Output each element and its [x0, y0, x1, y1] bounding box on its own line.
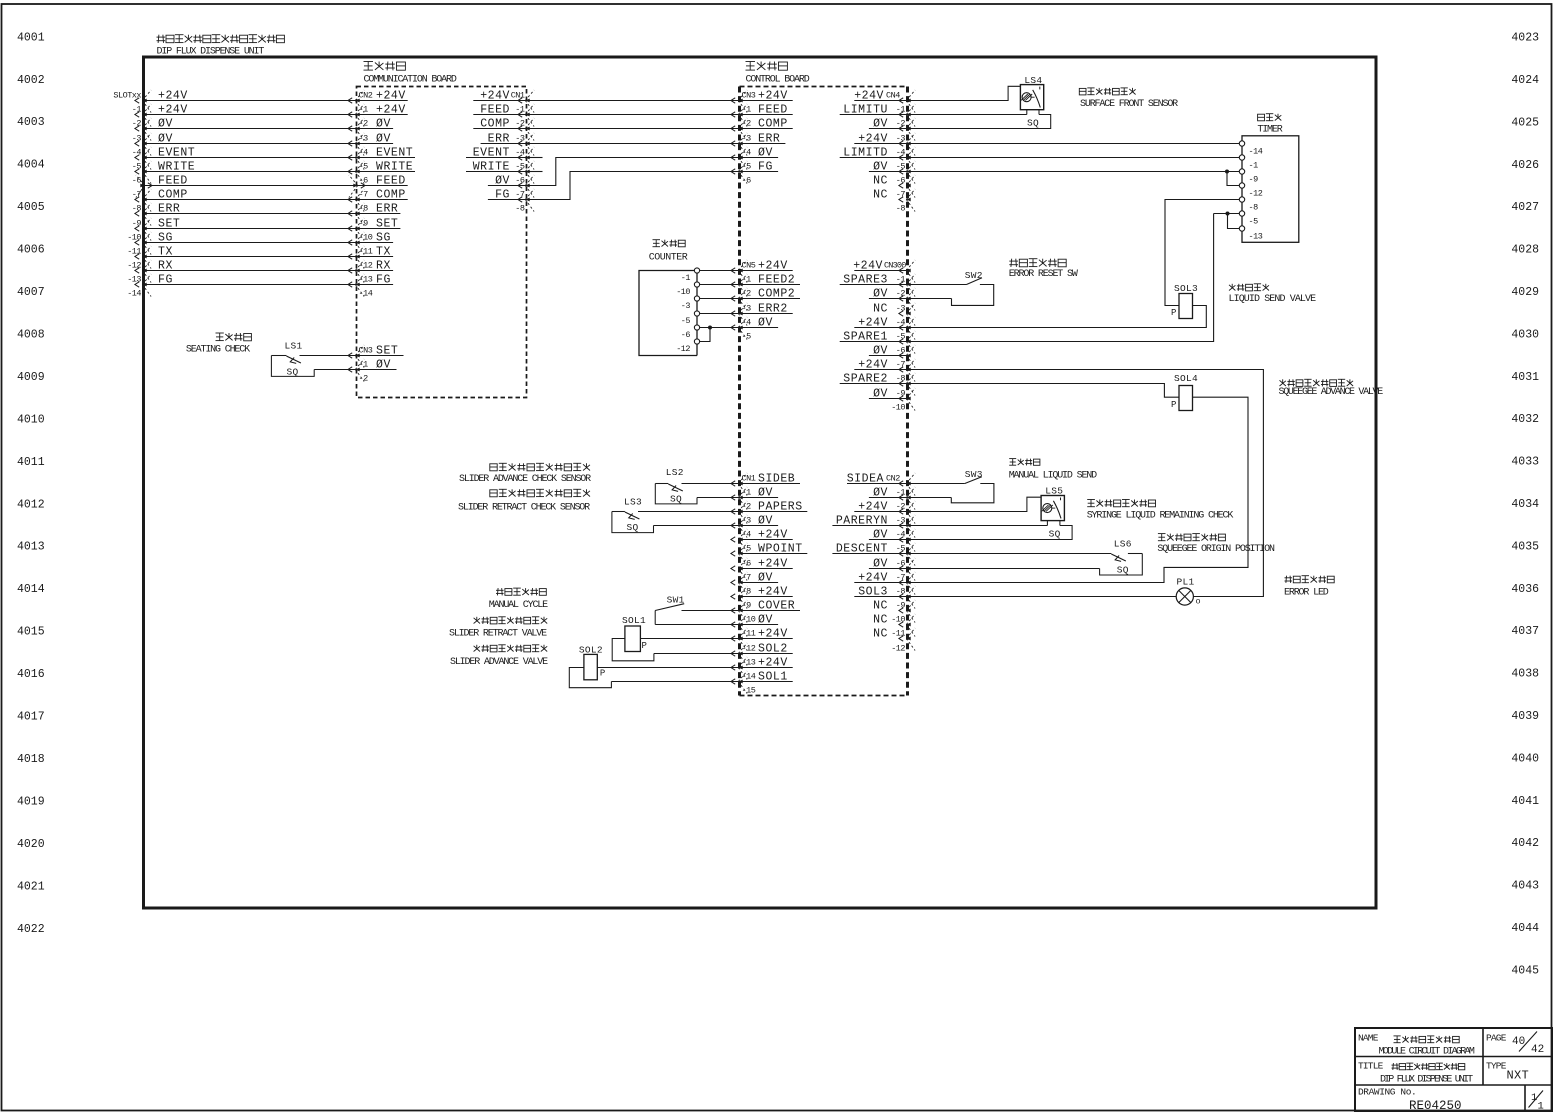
wire CN4-5 LIMITD to timer pin 1: [908, 157, 1240, 159]
svg-text:-6: -6: [681, 330, 691, 340]
grid numbers left 4001-4022: [17, 31, 45, 936]
svg-text:4037: 4037: [1511, 625, 1539, 638]
svg-text:4007: 4007: [17, 286, 45, 299]
svg-text:CONTROL BOARD: CONTROL BOARD: [746, 75, 810, 86]
lamp PL1 (error LED): [908, 577, 1201, 607]
svg-text:-10: -10: [676, 287, 690, 297]
counter pin -5: [681, 311, 700, 326]
label liquid send valve japanese: [1229, 284, 1269, 291]
svg-text:CN4: CN4: [886, 90, 900, 100]
svg-text:-5: -5: [896, 544, 906, 554]
svg-text:-3: -3: [896, 134, 906, 144]
label manual liquid send english: [1009, 471, 1097, 482]
control board CN1-1 pin SIDEB: [731, 472, 800, 495]
svg-text:4021: 4021: [17, 880, 45, 893]
svg-text:-6: -6: [896, 559, 906, 569]
label communication board japanese: [364, 62, 406, 71]
svg-text:SQUEEGEE ADVANCE VALVE: SQUEEGEE ADVANCE VALVE: [1279, 387, 1384, 398]
svg-text:-9: -9: [359, 219, 369, 229]
svg-text:4036: 4036: [1511, 583, 1539, 596]
svg-text:P: P: [642, 641, 647, 651]
svg-text:-3: -3: [742, 134, 752, 144]
control board CN2-7 pin 0V: [869, 557, 915, 580]
svg-text:-3: -3: [132, 134, 142, 144]
svg-text:SG: SG: [158, 231, 173, 244]
wire CN1-4 to CN3-4: [527, 143, 740, 145]
label slider advance valve english: [450, 657, 548, 668]
label slider retract check sensor english: [458, 503, 590, 514]
control board CN5-4 pin ERR2: [731, 302, 793, 325]
svg-text:4005: 4005: [17, 201, 45, 214]
svg-text:LS1: LS1: [285, 341, 303, 352]
svg-text:-4: -4: [515, 148, 525, 158]
timer pin -13: [1239, 226, 1262, 242]
svg-text:-5: -5: [681, 316, 691, 326]
wire counter to CN5 row 1: [700, 284, 740, 286]
svg-text:-1: -1: [896, 488, 906, 498]
svg-text:DIP FLUX DISPENSE UNIT: DIP FLUX DISPENSE UNIT: [157, 47, 265, 58]
control board CN1-2 pin 0V: [731, 486, 778, 509]
switch SW2 (error reset): [908, 270, 994, 305]
svg-text:4009: 4009: [17, 371, 45, 384]
control board CN1-10 pin COVER: [731, 599, 800, 622]
svg-text:NAME: NAME: [1358, 1033, 1379, 1044]
control board CN2-6 pin DESCENT: [832, 542, 915, 565]
svg-text:4019: 4019: [17, 795, 45, 808]
svg-text:FG: FG: [158, 273, 173, 286]
svg-text:-5: -5: [515, 162, 525, 172]
svg-text:CN300: CN300: [884, 260, 906, 270]
svg-text:-1: -1: [742, 275, 752, 285]
svg-text:-1: -1: [1249, 160, 1259, 170]
wire timer pin 8 to SOL3: [1165, 200, 1239, 306]
svg-text:ERROR RESET SW: ERROR RESET SW: [1009, 269, 1078, 280]
svg-text:-3: -3: [681, 301, 691, 311]
control board CN3-3 pin COMP: [731, 117, 793, 140]
svg-text:4023: 4023: [1511, 32, 1539, 45]
control board CN1-13 pin SOL2: [731, 642, 793, 665]
svg-text:-9: -9: [896, 389, 906, 399]
svg-text:-12: -12: [891, 644, 905, 654]
label slider advance check sensor english: [459, 474, 591, 485]
counter pin -1: [681, 268, 700, 283]
label slider advance valve japanese: [474, 645, 548, 652]
label syringe liquid remaining check english: [1087, 511, 1234, 522]
control board CN300-2 pin SPARE3: [840, 273, 915, 296]
svg-text:LS6: LS6: [1114, 539, 1132, 550]
svg-text:-13: -13: [359, 275, 373, 285]
control board CN2-2 pin 0V: [869, 486, 915, 509]
svg-text:-13: -13: [127, 275, 141, 285]
svg-text:-6: -6: [896, 176, 906, 186]
control board CN1-5 pin +24V: [731, 528, 793, 551]
svg-text:CN2: CN2: [359, 91, 373, 101]
title block name japanese (module circuit diagram): [1394, 1036, 1460, 1043]
svg-text:4039: 4039: [1511, 710, 1539, 723]
svg-text:P: P: [600, 669, 605, 679]
svg-text:SEATING CHECK: SEATING CHECK: [186, 345, 250, 356]
control board CN5-2 pin FEED2: [731, 273, 800, 296]
label squeegee origin position japanese: [1158, 534, 1226, 541]
svg-text:SURFACE FRONT SENSOR: SURFACE FRONT SENSOR: [1080, 99, 1178, 110]
label liquid send valve english: [1229, 294, 1317, 305]
sensor LS4 (surface front sensor): [908, 75, 1051, 129]
svg-text:4028: 4028: [1511, 244, 1539, 257]
svg-text:4032: 4032: [1511, 413, 1539, 426]
svg-text:-9: -9: [896, 601, 906, 611]
svg-text:SLIDER ADVANCE CHECK SENSOR: SLIDER ADVANCE CHECK SENSOR: [459, 474, 591, 485]
svg-text:NC: NC: [873, 627, 888, 640]
svg-text:-2: -2: [515, 119, 525, 129]
wire SLOT-2 to CN2-3 0V: [132, 117, 393, 140]
wire SLOT-9 to CN2-10 SET: [132, 217, 401, 240]
svg-text:-6: -6: [132, 176, 142, 186]
svg-text:-4: -4: [896, 148, 906, 158]
control board CN4-7 pin NC: [873, 174, 915, 197]
svg-text:4010: 4010: [17, 413, 45, 426]
svg-text:-1: -1: [515, 105, 525, 115]
wire CN300-8 +24V to PL1: [908, 370, 1264, 597]
wire counter 0V junction: [700, 326, 740, 342]
svg-text:WRITE: WRITE: [158, 160, 195, 173]
svg-text:-4: -4: [359, 148, 369, 158]
control board CN1-7 pin +24V: [731, 557, 793, 580]
control board CN2-4 pin PARERYN: [832, 514, 915, 537]
svg-text:LS3: LS3: [624, 497, 642, 508]
control board CN1-12 pin +24V: [731, 627, 793, 650]
control board CN4-6 pin 0V: [869, 160, 915, 183]
svg-text:-6: -6: [742, 176, 752, 186]
label syringe liquid remaining check japanese: [1087, 500, 1155, 507]
timer box: [1242, 136, 1299, 243]
svg-text:-7: -7: [896, 190, 906, 200]
svg-text:-7: -7: [515, 190, 525, 200]
label slider retract check sensor japanese: [490, 489, 590, 497]
svg-text:+24V: +24V: [158, 89, 188, 102]
comm board CN3-1 pin SET: [348, 344, 404, 367]
label squeegee advance valve japanese: [1280, 379, 1354, 386]
svg-text:-7: -7: [742, 573, 752, 583]
wire timer pins 5 and 13 to CN300-6 SPARE1: [908, 212, 1240, 342]
svg-text:4033: 4033: [1511, 456, 1539, 469]
svg-text:-1: -1: [896, 275, 906, 285]
svg-text:-9: -9: [742, 601, 752, 611]
svg-text:-5: -5: [742, 544, 752, 554]
wire CN4-4 +24V to timer pin 14: [908, 143, 1240, 145]
control board CN2-11 pin NC: [873, 613, 915, 636]
control board CN2-3 pin +24V: [854, 500, 915, 523]
title block frame: [1355, 1028, 1552, 1111]
control board CN2-9 pin SOL3: [854, 585, 915, 608]
svg-text:4003: 4003: [17, 116, 45, 129]
label communication board english: [364, 75, 457, 86]
svg-text:-9: -9: [1249, 174, 1259, 184]
pin number comm CN3-2: [359, 374, 369, 384]
title block page 40/42: [1486, 1032, 1544, 1057]
pin number CN4-8: [896, 204, 906, 214]
control board CN5-5 pin 0V: [731, 316, 778, 339]
svg-text:SLOTxx: SLOTxx: [113, 91, 141, 101]
svg-text:MODULE CIRCUIT DIAGRAM: MODULE CIRCUIT DIAGRAM: [1379, 1047, 1475, 1058]
solenoid valve SOL1 (slider retract valve): [612, 615, 739, 661]
label manual cycle english: [489, 600, 548, 611]
counter pin -6: [681, 325, 700, 340]
label error reset sw english: [1009, 269, 1078, 280]
comm board CN1-5 pin EVENT: [466, 146, 534, 169]
wire SLOT-13 to CN2-14 FG: [127, 273, 393, 296]
svg-text:4004: 4004: [17, 159, 45, 172]
svg-text:-15: -15: [742, 686, 756, 696]
svg-text:PL1: PL1: [1177, 577, 1195, 588]
label manual liquid send japanese: [1009, 459, 1040, 466]
svg-text:42: 42: [1531, 1044, 1544, 1056]
svg-text:4002: 4002: [17, 74, 45, 87]
limit switch LS3 (slider retract check): [612, 497, 740, 534]
solenoid valve SOL2 (slider advance valve): [569, 645, 739, 688]
control board CN300-7 pin 0V: [869, 344, 915, 367]
wire SLOT-11 to CN2-12 TX: [127, 245, 393, 268]
label slider retract valve english: [449, 629, 547, 640]
control board CN2-8 pin +24V: [854, 571, 915, 594]
svg-text:P: P: [1171, 308, 1176, 318]
svg-text:4017: 4017: [17, 711, 45, 724]
svg-text:-1: -1: [896, 105, 906, 115]
title block drawing number RE04250: [1409, 1099, 1462, 1113]
svg-text:COMP: COMP: [158, 188, 188, 201]
comm board CN1-8 pin FG: [488, 188, 534, 211]
timer pin -5: [1239, 211, 1258, 227]
svg-text:ØV: ØV: [158, 117, 173, 130]
pin number CN2-14: [359, 289, 373, 299]
comm board CN1-6 pin WRITE: [466, 160, 534, 183]
svg-text:4014: 4014: [17, 583, 45, 596]
svg-text:-10: -10: [891, 403, 905, 413]
svg-text:FEED: FEED: [158, 174, 188, 187]
svg-text:-5: -5: [742, 162, 752, 172]
svg-text:NXT: NXT: [1507, 1069, 1530, 1083]
control board CN4-8 pin NC: [873, 188, 915, 211]
svg-text:4031: 4031: [1511, 371, 1539, 384]
svg-text:SQ: SQ: [1027, 118, 1039, 129]
label squeegee origin position english: [1157, 544, 1275, 555]
svg-text:SET: SET: [158, 217, 180, 230]
svg-text:-10: -10: [359, 233, 373, 243]
wire SLOT-5 to CN2-6 WRITE: [132, 160, 415, 183]
control board CN1-15 pin SOL1: [731, 670, 793, 693]
svg-text:-13: -13: [742, 658, 756, 668]
control board CN3-6 pin FG: [731, 160, 778, 183]
wire counter to CN5 row 0: [700, 270, 740, 272]
pin number CN1-8: [515, 204, 525, 214]
svg-text:-2: -2: [896, 119, 906, 129]
control board dashed outline: [740, 87, 908, 696]
svg-text:-2: -2: [359, 119, 369, 129]
svg-text:EVENT: EVENT: [158, 146, 195, 159]
svg-text:-12: -12: [1249, 188, 1263, 198]
svg-text:SOL1: SOL1: [622, 615, 646, 626]
svg-text:-2: -2: [132, 119, 142, 129]
title block TITLE label: [1358, 1061, 1384, 1072]
svg-text:DRAWING No.: DRAWING No.: [1358, 1087, 1416, 1098]
svg-text:-4: -4: [896, 318, 906, 328]
svg-text:-6: -6: [742, 559, 752, 569]
control board CN3-2 pin FEED: [731, 103, 793, 126]
label slider advance check sensor japanese: [490, 463, 590, 471]
svg-text:DIP FLUX DISPENSE UNIT: DIP FLUX DISPENSE UNIT: [1380, 1075, 1473, 1086]
svg-text:4006: 4006: [17, 244, 45, 257]
control board CN300-4 pin NC: [873, 302, 915, 325]
svg-text:4018: 4018: [17, 753, 45, 766]
svg-text:-3: -3: [896, 516, 906, 526]
svg-text:-8: -8: [359, 204, 369, 214]
control board CN2-5 pin 0V: [869, 528, 915, 551]
comm board CN1-7 pin 0V: [488, 174, 534, 197]
svg-text:CN5: CN5: [742, 261, 756, 271]
svg-text:-2: -2: [742, 289, 752, 299]
svg-text:-14: -14: [1249, 146, 1263, 156]
svg-text:-8: -8: [896, 374, 906, 384]
svg-text:-2: -2: [359, 374, 369, 384]
control board CN3-5 pin 0V: [731, 146, 778, 169]
svg-text:SQ: SQ: [627, 522, 639, 533]
svg-text:SYRINGE LIQUID REMAINING CHECK: SYRINGE LIQUID REMAINING CHECK: [1087, 511, 1234, 522]
comm board CN1-2 pin FEED: [473, 103, 534, 126]
pin number CN5-5: [742, 332, 752, 342]
svg-text:4042: 4042: [1511, 837, 1539, 850]
title block NAME label: [1358, 1033, 1379, 1044]
label control board english: [746, 75, 810, 86]
control board CN1-6 pin WPOINT: [731, 542, 807, 565]
svg-text:4043: 4043: [1511, 880, 1539, 893]
svg-text:1: 1: [1538, 1101, 1544, 1113]
control board CN1-3 pin PAPERS: [731, 500, 807, 523]
counter pin -12: [676, 339, 699, 354]
svg-text:4025: 4025: [1511, 116, 1539, 129]
sensor LS5 (syringe liquid remaining check): [908, 486, 1073, 540]
svg-text:4024: 4024: [1511, 74, 1539, 87]
control board CN4-3 pin 0V: [869, 117, 915, 140]
svg-text:4027: 4027: [1511, 201, 1539, 214]
svg-text:-4: -4: [742, 148, 752, 158]
label slider retract valve japanese: [474, 617, 548, 624]
pin number ctrl CN2-12: [891, 644, 905, 654]
svg-text:4034: 4034: [1511, 498, 1539, 511]
timer pin -9: [1239, 169, 1258, 185]
svg-text:LS2: LS2: [666, 467, 684, 478]
svg-text:NC: NC: [873, 188, 888, 201]
svg-text:-6: -6: [515, 176, 525, 186]
svg-text:-1: -1: [742, 488, 752, 498]
switch SW1 (manual cycle): [655, 595, 739, 625]
comm board CN1-3 pin COMP: [473, 117, 534, 140]
title block sheet 1/1: [1529, 1091, 1544, 1113]
control board CN4-4 pin +24V: [854, 132, 915, 155]
header title english: [157, 47, 265, 58]
svg-text:TX: TX: [158, 245, 173, 258]
svg-text:-1: -1: [359, 360, 369, 370]
svg-text:-1: -1: [132, 105, 142, 115]
svg-text:COUNTER: COUNTER: [649, 253, 688, 264]
pin number CN300-10: [891, 403, 905, 413]
svg-text:-4: -4: [742, 530, 752, 540]
svg-text:TYPE: TYPE: [1486, 1061, 1507, 1072]
svg-text:-3: -3: [359, 134, 369, 144]
svg-text:4012: 4012: [17, 498, 45, 511]
wire counter to CN5 row 2: [700, 298, 740, 300]
svg-text:MANUAL CYCLE: MANUAL CYCLE: [489, 600, 548, 611]
svg-text:4026: 4026: [1511, 159, 1539, 172]
svg-text:-14: -14: [742, 672, 756, 682]
svg-text:-5: -5: [132, 162, 142, 172]
svg-text:SQ: SQ: [1049, 529, 1061, 540]
svg-text:NC: NC: [873, 174, 888, 187]
switch SW3 (manual liquid send): [908, 469, 994, 503]
control board CN300-3 pin 0V: [869, 287, 915, 310]
svg-text:-4: -4: [742, 318, 752, 328]
label counter japanese: [653, 240, 686, 247]
svg-text:-2: -2: [896, 289, 906, 299]
svg-text:SW2: SW2: [965, 270, 983, 281]
label control board japanese: [746, 62, 788, 71]
svg-text:NC: NC: [873, 302, 888, 315]
svg-text:TIMER: TIMER: [1257, 125, 1282, 136]
svg-text:-7: -7: [896, 360, 906, 370]
svg-text:-8: -8: [1249, 202, 1259, 212]
svg-text:TITLE: TITLE: [1358, 1061, 1384, 1072]
wire SLOT-10 to CN2-11 SG: [127, 231, 393, 254]
svg-text:SW3: SW3: [965, 469, 983, 480]
svg-text:4011: 4011: [17, 456, 45, 469]
svg-text:SQ: SQ: [670, 494, 682, 505]
svg-text:4040: 4040: [1511, 752, 1539, 765]
pin number CN3-6: [742, 176, 752, 186]
svg-text:-5: -5: [1249, 216, 1259, 226]
label squeegee advance valve english: [1279, 387, 1384, 398]
svg-text:-8: -8: [742, 587, 752, 597]
svg-text:4038: 4038: [1511, 668, 1539, 681]
svg-text:-14: -14: [127, 289, 141, 299]
svg-text:4020: 4020: [17, 838, 45, 851]
svg-text:SLIDER RETRACT VALVE: SLIDER RETRACT VALVE: [449, 629, 547, 640]
comm board CN3-2 pin 0V: [348, 358, 397, 381]
solenoid valve SOL4 (squeegee advance valve): [908, 373, 1249, 583]
svg-text:4016: 4016: [17, 668, 45, 681]
svg-text:-3: -3: [515, 134, 525, 144]
svg-text:CN1: CN1: [742, 474, 756, 484]
main frame border: [144, 57, 1377, 908]
svg-text:-8: -8: [896, 204, 906, 214]
label error reset sw japanese: [1009, 259, 1066, 267]
svg-text:4013: 4013: [17, 541, 45, 554]
svg-text:-7: -7: [132, 190, 142, 200]
svg-text:P: P: [1171, 400, 1176, 410]
label surface front sensor english: [1080, 99, 1178, 110]
label error led english: [1284, 588, 1329, 599]
svg-text:ERROR LED: ERROR LED: [1284, 588, 1329, 599]
svg-text:CN1: CN1: [511, 91, 525, 101]
wire CN1-7 0V to CN3-5 0V: [527, 158, 740, 186]
wire SLOT-4 to CN2-5 EVENT: [132, 146, 415, 169]
svg-text:CN2: CN2: [886, 473, 900, 483]
svg-text:-8: -8: [896, 587, 906, 597]
svg-text:-12: -12: [742, 644, 756, 654]
svg-text:CN3: CN3: [359, 346, 373, 356]
wire CN4-6 0V to timer pins 9 and 12: [908, 170, 1240, 186]
svg-text:-12: -12: [676, 344, 690, 354]
svg-text:-9: -9: [132, 219, 142, 229]
svg-text:SQ: SQ: [1117, 565, 1129, 576]
control board CN4-2 pin LIMITU: [840, 103, 915, 126]
